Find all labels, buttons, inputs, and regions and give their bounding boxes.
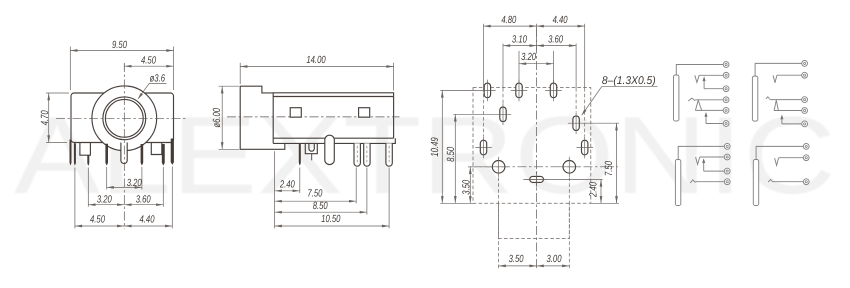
schematic S2 ring contact caret bbox=[766, 97, 770, 99]
schematic S3 terminal 3 bbox=[724, 168, 730, 174]
pin left 4.50 (front view) bbox=[74, 143, 76, 166]
svg-text:2.40: 2.40 bbox=[279, 180, 295, 191]
schematic S2 plug sleeve bar bbox=[752, 76, 757, 121]
pad 5 bbox=[573, 116, 579, 131]
svg-text:3.00: 3.00 bbox=[547, 254, 562, 265]
dimension 3.20 inner row bbox=[107, 186, 142, 188]
schematic S2 actuator triangle bbox=[774, 100, 778, 110]
schematic S1 terminal 2 bbox=[723, 72, 729, 78]
pin left 3.20 (front view) bbox=[105, 144, 108, 166]
center pin (front view) bbox=[121, 143, 127, 164]
schematic S1 terminal 3 bbox=[723, 86, 729, 92]
pin right 3.60 (front view) bbox=[141, 144, 144, 166]
schematic S4 terminal 2 bbox=[803, 155, 809, 161]
dimension 3.20 footprint bbox=[519, 63, 554, 65]
mounting hole right bbox=[563, 161, 576, 174]
side view body top inner line bbox=[273, 96, 393, 98]
svg-text:ø6.00: ø6.00 bbox=[212, 108, 223, 128]
dimension 7.50 bbox=[275, 200, 357, 202]
schematic S1 wire arm to terminal 6 bbox=[706, 123, 723, 125]
svg-text:4.50: 4.50 bbox=[141, 55, 156, 66]
svg-text:3.20: 3.20 bbox=[521, 52, 536, 63]
mounting hole left bbox=[492, 161, 505, 174]
svg-text:4.70: 4.70 bbox=[40, 110, 51, 125]
schematic S1 wire arm to terminal 3 bbox=[704, 88, 723, 90]
schematic S1 switch arm arrow lower bbox=[704, 112, 707, 117]
schematic S4 terminal 1 bbox=[803, 144, 809, 150]
svg-text:8.50: 8.50 bbox=[446, 147, 457, 162]
dimension 10.50 bbox=[275, 225, 390, 227]
dimension 7.50 footprint bbox=[616, 123, 618, 203]
front view vertical centerline bbox=[123, 63, 125, 229]
pad 4 bbox=[500, 107, 506, 122]
schematic S1 wire triangle base to terminal 5 bbox=[695, 109, 723, 111]
svg-text:3.50: 3.50 bbox=[461, 180, 472, 195]
footprint pad8 arm extension bbox=[523, 178, 602, 180]
side view latch window left bbox=[290, 108, 301, 118]
schematic S1 wire V to terminal 2 bbox=[699, 74, 723, 76]
pin rightmost (front view) bbox=[171, 139, 174, 165]
schematic S1 wire sleeve to terminal 1 bbox=[676, 65, 723, 76]
pad 7 bbox=[582, 140, 588, 155]
pad 2 bbox=[516, 83, 522, 98]
footprint vertical centerline bbox=[536, 28, 538, 269]
footprint body outline dashed bbox=[473, 88, 591, 204]
side view barrel bbox=[240, 86, 285, 149]
svg-text:14.00: 14.00 bbox=[306, 55, 325, 66]
schematic S1 ring contact caret bbox=[688, 98, 695, 101]
front view horizontal centerline bbox=[56, 117, 186, 119]
schematic S3 terminal 2 bbox=[724, 154, 730, 160]
dimension 3.50 left footprint bbox=[469, 167, 471, 204]
schematic S2 wire triangle base to terminal 4 bbox=[774, 110, 802, 112]
pad 8 center oval bbox=[530, 176, 544, 182]
schematic S1 plug sleeve bar bbox=[674, 75, 679, 121]
side view dark pin bbox=[299, 143, 301, 165]
dimension 3.50 / 3.00 bottom bbox=[499, 265, 570, 267]
pad 3 bbox=[550, 83, 556, 98]
footprint extension lines dashed bbox=[518, 51, 520, 83]
front view extension lines below pins bbox=[74, 168, 76, 229]
schematic S1 terminal 4 bbox=[723, 97, 729, 103]
svg-text:4.40: 4.40 bbox=[140, 215, 155, 226]
dimension 2.40 bbox=[275, 190, 300, 192]
side view horizontal centerline bbox=[227, 116, 400, 118]
svg-text:3.10: 3.10 bbox=[512, 35, 527, 46]
front view body bbox=[71, 93, 174, 143]
dimension diameter 6.00 bbox=[219, 85, 240, 87]
schematic S4 wire caret to terminal 3 bbox=[773, 181, 804, 183]
schematic S1 tip contact V bbox=[695, 75, 699, 82]
schematic S1 switch arm arrow upper bbox=[703, 76, 706, 81]
schematic S3 switch arm arrow bbox=[702, 158, 705, 163]
dimension 14.00 bbox=[239, 63, 241, 84]
svg-text:3.20: 3.20 bbox=[127, 178, 142, 189]
schematic S3 wire arm to terminal 3 bbox=[704, 170, 725, 172]
schematic S2 wire sleeve to terminal 1 bbox=[755, 63, 802, 76]
side view bottom flange bbox=[273, 138, 395, 143]
svg-text:4.50: 4.50 bbox=[90, 215, 105, 226]
schematic S2 tip contact V bbox=[773, 75, 777, 83]
schematic S2 terminal 3 bbox=[802, 97, 808, 103]
dimension 8.50 bbox=[275, 211, 367, 213]
schematic S3 ring contact caret bbox=[690, 180, 695, 183]
svg-text:ø3.6: ø3.6 bbox=[150, 74, 166, 85]
schematic S2 wire caret to terminal 3 bbox=[770, 99, 802, 101]
dimension 2.40 footprint bbox=[600, 179, 602, 203]
footprint barrel outline dashed bbox=[499, 203, 570, 238]
svg-text:3.60: 3.60 bbox=[548, 35, 563, 46]
schematic S2 wire V to terminal 2 bbox=[777, 74, 802, 76]
footprint horizontal centerline bbox=[468, 166, 618, 168]
side view latch window right bbox=[359, 108, 370, 118]
pin on right bracket (front view) bbox=[162, 144, 165, 166]
side view body bbox=[273, 93, 393, 144]
schematic S4 wire sleeve to terminal 1 bbox=[756, 146, 803, 159]
right bracket tab (front view) bbox=[151, 143, 162, 155]
side view snap-in post (oval) bbox=[325, 135, 335, 164]
dimension 4.50 / 4.40 row bbox=[75, 225, 172, 227]
svg-text:2.40: 2.40 bbox=[588, 182, 599, 198]
schematic S2 terminal 2 bbox=[802, 72, 808, 78]
svg-text:8–(1.3X0.5): 8–(1.3X0.5) bbox=[602, 75, 656, 87]
svg-text:7.50: 7.50 bbox=[604, 161, 615, 176]
dimension 9.50 bbox=[69, 47, 71, 91]
dimension 3.20 / 3.60 row bbox=[88, 204, 163, 206]
side view extension lines below pins bbox=[274, 151, 276, 228]
side view body bottom line bbox=[273, 137, 393, 139]
side view shield bracket bbox=[305, 143, 317, 153]
side view round pin 10.50 bbox=[386, 143, 392, 166]
schematic S2 wire arm to terminal 5 bbox=[782, 123, 802, 125]
pin on left bracket (front view) bbox=[87, 155, 89, 166]
schematic S2 terminal 4 bbox=[802, 108, 808, 114]
footprint left extension 3.50 bbox=[468, 166, 490, 168]
schematic S1 terminal 5 bbox=[723, 108, 729, 114]
schematic S4 terminal 3 bbox=[803, 179, 809, 185]
schematic S3 plug sleeve bar bbox=[675, 160, 680, 206]
schematic S4 plug sleeve bar bbox=[753, 160, 758, 206]
svg-text:8.50: 8.50 bbox=[313, 201, 328, 212]
svg-text:4.80: 4.80 bbox=[501, 15, 516, 26]
left bracket tab (front view) bbox=[80, 143, 91, 155]
dimension 4.50 top bbox=[123, 63, 125, 70]
footprint pad5 arm extension bbox=[584, 122, 619, 124]
pad 1 bbox=[484, 83, 490, 98]
svg-text:10.50: 10.50 bbox=[321, 214, 340, 225]
schematic S3 terminal 1 bbox=[724, 144, 730, 150]
front view chamfer ring bbox=[103, 97, 146, 140]
schematic S1 terminal 1 bbox=[723, 62, 729, 68]
footprint left extension 8.50 bbox=[453, 113, 495, 115]
schematic S1 actuator triangle bbox=[695, 100, 701, 110]
schematic S3 wire caret to terminal 4 bbox=[695, 181, 724, 183]
footprint top-left extension 10.49 bbox=[440, 89, 479, 91]
dimension 4.80 / 4.40 bbox=[484, 25, 585, 27]
schematic S3 wire sleeve to terminal 1 bbox=[678, 146, 724, 159]
svg-text:4.40: 4.40 bbox=[553, 15, 568, 26]
svg-text:7.50: 7.50 bbox=[307, 189, 322, 200]
svg-text:10.49: 10.49 bbox=[430, 137, 441, 156]
dimension 4.70 bbox=[46, 92, 69, 94]
dimension 10.49 bbox=[441, 90, 443, 203]
schematic S3 wire V to terminal 2 bbox=[700, 156, 725, 158]
pin leftmost (front view) bbox=[70, 140, 72, 166]
pad 6 bbox=[480, 140, 486, 155]
schematic S2 switch arm arrow bbox=[780, 115, 783, 120]
schematic S3 tip contact V bbox=[696, 157, 700, 164]
front view barrel outer circle bbox=[92, 86, 157, 151]
schematic S3 terminal 4 bbox=[724, 179, 730, 185]
schematic S4 tip contact V bbox=[775, 158, 779, 165]
schematic S4 wire V to terminal 2 bbox=[779, 157, 804, 159]
side view round pin 7.50 bbox=[354, 143, 360, 166]
schematic S1 terminal 6 bbox=[723, 121, 729, 127]
svg-text:3.60: 3.60 bbox=[136, 194, 151, 205]
schematic S2 terminal 5 bbox=[802, 121, 808, 127]
svg-text:3.20: 3.20 bbox=[97, 194, 112, 205]
schematic S4 ring contact caret bbox=[768, 179, 773, 182]
schematic S1 wire caret to terminal 4 bbox=[695, 99, 723, 101]
schematic S2 terminal 1 bbox=[802, 61, 808, 67]
dimension 8.50 footprint bbox=[454, 114, 456, 203]
side view round pin 8.50 bbox=[364, 143, 370, 166]
footprint bottom reference extension bbox=[440, 202, 473, 204]
svg-text:9.50: 9.50 bbox=[112, 40, 127, 51]
svg-text:3.50: 3.50 bbox=[509, 254, 524, 265]
front view jack hole circle bbox=[105, 99, 143, 137]
dimension 3.10 / 3.60 bbox=[503, 45, 576, 47]
